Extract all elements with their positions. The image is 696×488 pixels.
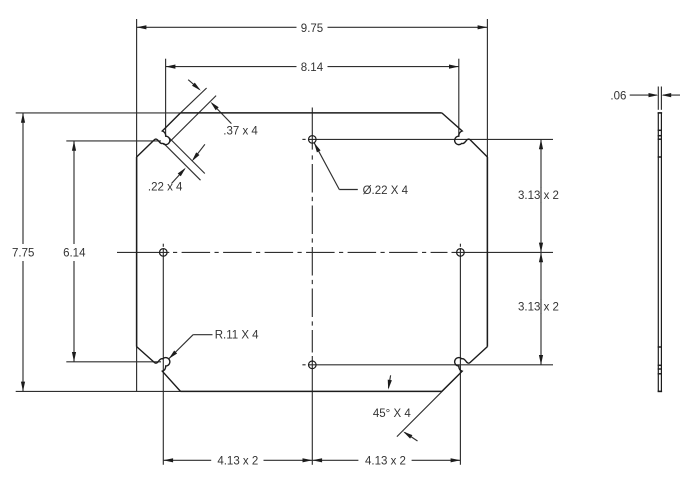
svg-text:3.13 x 2: 3.13 x 2: [518, 190, 559, 202]
svg-text:4.13 x 2: 4.13 x 2: [365, 455, 406, 467]
svg-text:4.13 x 2: 4.13 x 2: [217, 455, 258, 467]
svg-text:.06: .06: [610, 90, 626, 102]
svg-text:.37 x 4: .37 x 4: [223, 126, 258, 138]
svg-text:7.75: 7.75: [12, 247, 34, 259]
svg-text:8.14: 8.14: [301, 62, 324, 74]
svg-text:45° X 4: 45° X 4: [373, 408, 411, 420]
svg-text:3.13 x 2: 3.13 x 2: [518, 302, 559, 314]
svg-text:R.11 X 4: R.11 X 4: [215, 330, 259, 342]
svg-text:9.75: 9.75: [301, 23, 323, 35]
svg-text:6.14: 6.14: [63, 247, 86, 259]
svg-text:.22 x 4: .22 x 4: [148, 182, 183, 194]
svg-text:Ø.22 X 4: Ø.22 X 4: [363, 185, 409, 197]
